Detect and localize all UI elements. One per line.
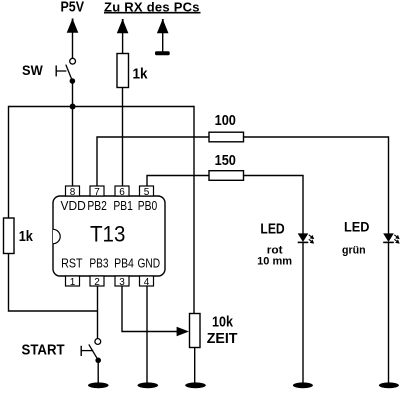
svg-text:150: 150	[215, 152, 236, 169]
junction dot on top rail	[70, 104, 76, 110]
svg-text:100: 100	[215, 112, 236, 129]
wire rail corner down to potentiometer	[193, 106, 195, 314]
pin 1 box	[66, 276, 80, 286]
resistor 1k (left, pullup)	[4, 218, 15, 254]
resistor 100	[209, 132, 244, 142]
wire START switch to ground	[97, 360, 99, 382]
RX arrow 2 (terminal)	[157, 19, 169, 33]
svg-text:5: 5	[144, 187, 150, 198]
wire P5V arrow to switch SW	[72, 33, 74, 59]
wire left branch down	[8, 106, 10, 218]
wire red LED to ground	[302, 242, 304, 382]
svg-text:GND: GND	[138, 256, 161, 271]
terminal bar	[155, 51, 170, 55]
wire pin 7 to resistor 100	[97, 137, 209, 187]
switch START (pushbutton)	[81, 339, 101, 361]
ground (green LED)	[379, 382, 399, 388]
resistor 150	[209, 171, 244, 181]
svg-text:8: 8	[70, 187, 76, 198]
wire pin 3 to potentiometer wiper	[122, 286, 178, 332]
svg-text:START: START	[22, 342, 65, 359]
potentiometer wiper arrow	[177, 327, 189, 337]
wire green LED to ground	[388, 242, 390, 382]
svg-text:1k: 1k	[133, 65, 149, 82]
svg-text:grün: grün	[342, 245, 366, 257]
svg-text:ZEIT: ZEIT	[207, 330, 238, 347]
wire pin 2 down to START switch	[97, 286, 99, 339]
svg-text:PB4: PB4	[114, 256, 134, 271]
wire arrow2 to terminal bar	[162, 33, 164, 52]
svg-text:10 mm: 10 mm	[257, 255, 292, 267]
svg-text:PB2: PB2	[87, 198, 107, 213]
top rail wire	[9, 106, 195, 108]
wire resistor 100 to green LED column	[244, 137, 389, 234]
pin 2 box	[90, 276, 104, 286]
wire switch to top rail	[72, 81, 74, 107]
wire pin 5 to resistor 150	[147, 176, 209, 187]
svg-text:LED: LED	[344, 220, 370, 235]
IC U1 T13 body	[53, 196, 165, 276]
wire arrow1 to resistor 1k top	[122, 33, 124, 54]
wire 1k left bottom, corner to PB3 line	[9, 254, 98, 312]
svg-text:P5V: P5V	[61, 0, 85, 16]
svg-text:LED: LED	[260, 221, 284, 238]
ground (START)	[88, 382, 109, 388]
pin 3 box	[115, 276, 129, 286]
P5V supply arrow	[67, 19, 79, 33]
svg-text:7: 7	[94, 187, 100, 198]
svg-text:6: 6	[119, 187, 125, 198]
svg-text:1k: 1k	[19, 228, 34, 245]
wire pin 4 to ground	[146, 286, 148, 383]
pin 6 box	[115, 186, 129, 196]
RX arrow 1 (to 1k)	[117, 19, 129, 33]
svg-text:10k: 10k	[212, 314, 234, 331]
svg-text:VDD: VDD	[61, 198, 86, 213]
svg-text:RST: RST	[61, 256, 83, 271]
potentiometer 10k ZEIT body	[190, 314, 201, 348]
LED D1 red symbol	[298, 233, 314, 243]
LED D2 green symbol	[383, 233, 399, 243]
ground (potentiometer)	[185, 382, 206, 388]
ground (pin 4)	[138, 382, 159, 388]
pin 4 box	[140, 276, 154, 286]
pin 5 box	[140, 186, 154, 196]
ground (red LED)	[293, 382, 313, 388]
pin 7 box	[90, 186, 104, 196]
wire 1k bottom to pin 6	[122, 88, 124, 187]
svg-text:PB0: PB0	[138, 198, 158, 213]
svg-text:1: 1	[70, 277, 76, 288]
wire potentiometer bottom to ground	[194, 348, 196, 383]
IC notch	[53, 229, 60, 243]
svg-text:PB3: PB3	[89, 256, 108, 271]
resistor 1k (top, serial)	[117, 54, 129, 88]
switch SW (pushbutton)	[56, 58, 75, 81]
wire resistor 150 to red LED column	[244, 176, 304, 234]
wire top rail down to pin 8	[72, 107, 74, 187]
svg-text:T13: T13	[90, 221, 125, 246]
svg-text:PB1: PB1	[113, 198, 132, 213]
svg-text:SW: SW	[22, 63, 43, 78]
pin 8 box	[66, 186, 80, 196]
